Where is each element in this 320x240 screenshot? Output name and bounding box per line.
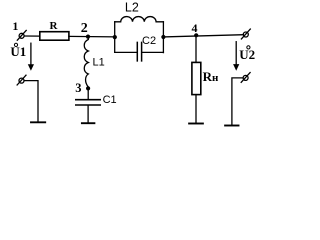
svg-text:C2: C2 [142,35,156,47]
inductor L1 (vertical coil) [84,37,88,87]
svg-text:C1: C1 [103,94,117,106]
svg-text:4: 4 [192,21,198,35]
arrow U1 (voltage direction) [28,43,34,71]
wire terminal1 to R [24,35,40,37]
label U1 (phasor) [10,43,26,59]
capacitor C1 [76,100,100,105]
svg-text:2: 2 [81,21,88,36]
wire node 3 to C1 [87,89,89,100]
svg-text:R: R [50,20,59,32]
node 3 junction dot [86,86,90,90]
node 2 junction dot [86,35,90,39]
node 4 junction dot [194,33,198,37]
svg-text:L2: L2 [125,1,139,15]
svg-text:L1: L1 [93,57,105,69]
terminal 2' (output bottom) [241,73,250,83]
terminal 2 (output top) [241,29,250,39]
wire Rn to ground [195,95,197,123]
inductor L2 (top branch of tank) [115,17,164,22]
wire terminal 2' to ground [232,78,243,125]
resistor R [40,32,69,41]
wire node 4 down to Rn [195,35,197,62]
ground (Rn branch) [189,123,203,125]
junction dot tank right [161,35,165,39]
tank circuit left edge wire [114,22,116,53]
terminal 1' (input bottom) [17,75,26,85]
junction dot tank left [113,35,117,39]
ground (output branch) [225,125,238,127]
wire R to tank left, through node 2 [69,35,115,38]
ground (C1 branch) [82,122,95,124]
wire C1 to ground [87,106,89,123]
svg-text:Rн: Rн [203,69,219,84]
arrow U2 (voltage direction) [233,42,239,71]
label U2 (phasor) [239,46,255,62]
capacitor C2 (bottom branch of tank) [115,42,164,61]
wire tank right to terminal 2, through node 4 [163,35,243,37]
resistor Rn (load) [192,62,201,94]
tank circuit right edge wire [162,22,164,53]
svg-text:3: 3 [75,81,81,95]
svg-text:U1: U1 [10,44,26,59]
terminal 1 (input top) [17,30,26,40]
svg-text:1: 1 [12,19,18,33]
wire terminal 1' to ground [24,81,38,122]
ground (input branch) [31,121,45,123]
